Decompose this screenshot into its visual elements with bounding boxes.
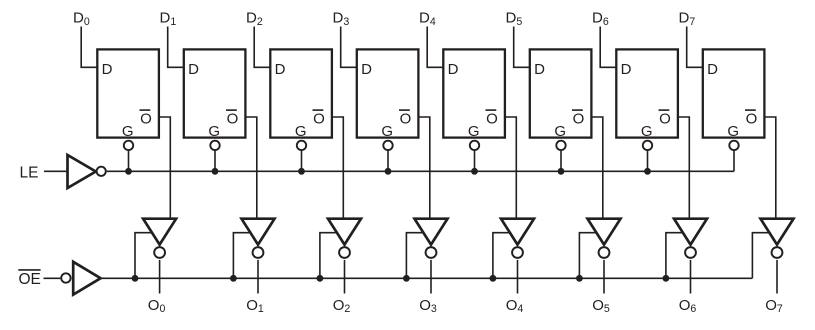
svg-text:O7: O7: [765, 297, 783, 315]
svg-text:O0: O0: [148, 297, 166, 315]
svg-text:D5: D5: [506, 10, 523, 28]
svg-text:D6: D6: [592, 10, 609, 28]
svg-text:D2: D2: [246, 10, 263, 28]
svg-text:D: D: [621, 61, 632, 78]
svg-text:G: G: [554, 123, 566, 140]
svg-text:D: D: [707, 61, 718, 78]
svg-text:O1: O1: [246, 297, 264, 315]
svg-text:O: O: [486, 111, 498, 128]
svg-text:D4: D4: [419, 10, 436, 28]
svg-text:D: D: [188, 61, 199, 78]
svg-text:O: O: [313, 111, 325, 128]
svg-text:D: D: [448, 61, 459, 78]
svg-text:O: O: [227, 111, 239, 128]
svg-text:G: G: [295, 123, 307, 140]
svg-text:D: D: [534, 61, 545, 78]
svg-text:O3: O3: [419, 297, 437, 315]
svg-text:O: O: [573, 111, 585, 128]
svg-text:D0: D0: [73, 10, 90, 28]
svg-text:D7: D7: [679, 10, 696, 28]
svg-text:OE: OE: [19, 271, 41, 288]
svg-text:D1: D1: [160, 10, 177, 28]
svg-text:O: O: [140, 111, 152, 128]
svg-text:O: O: [400, 111, 412, 128]
svg-text:G: G: [727, 123, 739, 140]
svg-text:G: G: [381, 123, 393, 140]
svg-text:O2: O2: [333, 297, 351, 315]
svg-text:O6: O6: [679, 297, 697, 315]
svg-text:G: G: [641, 123, 653, 140]
svg-text:D: D: [275, 61, 286, 78]
svg-text:D3: D3: [333, 10, 350, 28]
svg-text:D: D: [361, 61, 372, 78]
svg-text:LE: LE: [20, 165, 39, 182]
svg-text:G: G: [122, 123, 134, 140]
svg-text:D: D: [102, 61, 113, 78]
svg-text:O5: O5: [592, 297, 610, 315]
svg-text:G: G: [468, 123, 480, 140]
svg-text:O: O: [659, 111, 671, 128]
svg-text:G: G: [208, 123, 220, 140]
svg-text:O4: O4: [506, 297, 524, 315]
svg-text:O: O: [746, 111, 758, 128]
